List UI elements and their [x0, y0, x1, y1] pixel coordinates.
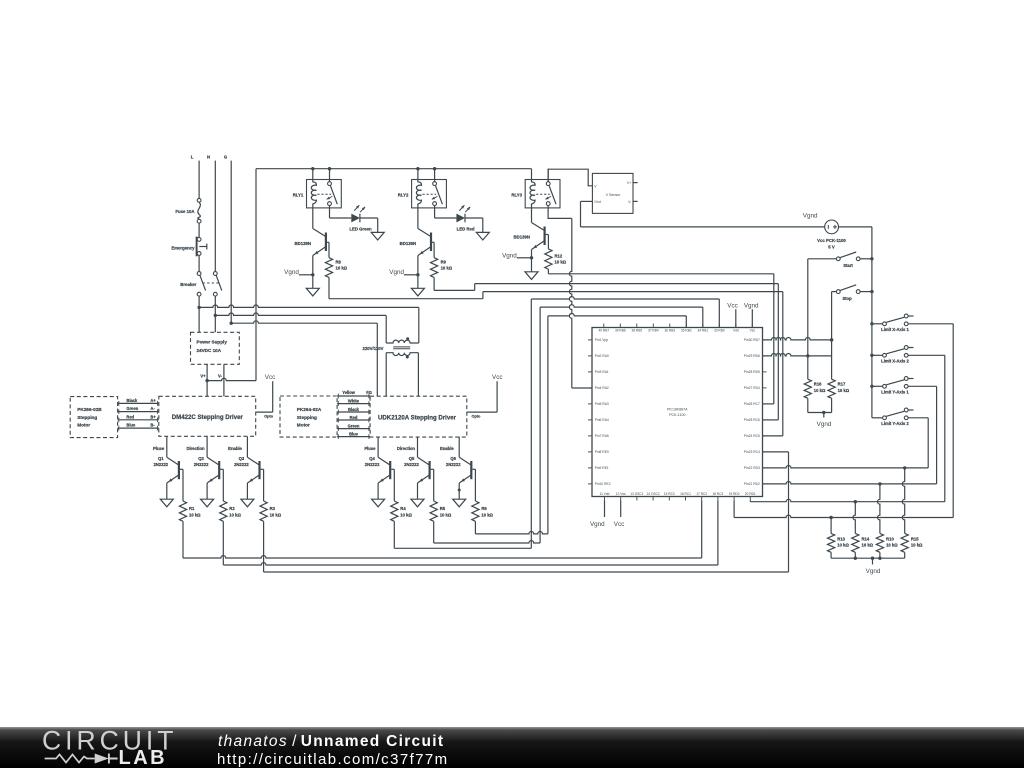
wire R3 to RC4 [264, 452, 789, 572]
svg-text:Start: Start [843, 263, 853, 268]
wire R10 column [878, 484, 880, 534]
svg-text:Yellow: Yellow [342, 390, 356, 395]
label Opto1 [264, 415, 274, 419]
svg-text:Pluse: Pluse [364, 446, 376, 451]
relay RLY3 [511, 169, 560, 208]
svg-text:R2: R2 [229, 506, 235, 511]
svg-text:40 RB7: 40 RB7 [598, 329, 609, 333]
svg-text:Q6: Q6 [450, 456, 456, 461]
junction rail X1 [870, 322, 873, 325]
label Vcc above chip [727, 302, 738, 309]
wire Vss top [751, 309, 753, 327]
svg-text:R15: R15 [911, 536, 919, 541]
transistor Q7 BD139N [295, 208, 326, 296]
CircuitLab logo resistor zigzag [45, 755, 95, 763]
wire RD3 line [763, 465, 929, 469]
resistor R5 [430, 501, 452, 521]
label Vgnd source [803, 213, 818, 220]
wire RD6 to Start node [763, 353, 832, 355]
wire R1 to RC2 [183, 501, 702, 559]
svg-text:LED Green: LED Green [349, 226, 372, 231]
svg-text:Pin4 RA2: Pin4 RA2 [595, 386, 609, 390]
svg-text:Q1: Q1 [158, 456, 164, 461]
svg-text:B-: B- [150, 423, 155, 428]
stepping driver U4 UDK2120A [370, 396, 467, 437]
svg-text:Green: Green [126, 406, 138, 411]
resistor R9 [431, 242, 453, 277]
wire R13-R15 bottom bus [831, 552, 905, 564]
svg-text:33 RB0: 33 RB0 [714, 329, 725, 333]
svg-text:RLY3: RLY3 [511, 193, 522, 198]
svg-text:PIC16F887A: PIC16F887A [667, 408, 688, 412]
svg-text:R8: R8 [336, 259, 342, 264]
transistor Q1 2N2222 [153, 437, 183, 507]
footer title thanatos / Unnamed Circuit [218, 733, 444, 750]
svg-text:18 RC3: 18 RC3 [712, 492, 723, 496]
svg-text:2N2222: 2N2222 [404, 462, 419, 467]
wire motor2 Yellow FG [337, 390, 372, 399]
label V- [218, 374, 223, 379]
svg-text:Limit X-Axis 1: Limit X-Axis 1 [881, 327, 909, 332]
svg-text:Pin5 RA3: Pin5 RA3 [595, 402, 609, 406]
svg-text:12 Vss: 12 Vss [616, 492, 626, 496]
svg-text:LED Red: LED Red [457, 226, 475, 231]
wire R9 to RC6 line [434, 277, 778, 420]
svg-text:http://circuitlab.com/c37f77m: http://circuitlab.com/c37f77m [217, 751, 449, 768]
transistor Q3 2N2222 [228, 437, 263, 507]
svg-text:Fuse 10A: Fuse 10A [175, 209, 194, 214]
wire Vgnd RLY3 [517, 256, 533, 259]
svg-text:2N2222: 2N2222 [153, 462, 168, 467]
svg-text:Black: Black [126, 398, 138, 403]
svg-text:thanatos / Unnamed Circuit: thanatos / Unnamed Circuit [218, 733, 444, 750]
svg-text:Red: Red [350, 415, 358, 420]
svg-text:PK264-02A: PK264-02A [297, 407, 322, 412]
CircuitLab logo diode [95, 754, 118, 764]
svg-text:Pin30 RD7: Pin30 RD7 [744, 338, 760, 342]
svg-text:36 RB3: 36 RB3 [664, 329, 675, 333]
svg-text:R12: R12 [555, 253, 563, 258]
svg-text:Pin22 RD3: Pin22 RD3 [744, 466, 760, 470]
svg-text:V-: V- [628, 200, 631, 204]
resistor R6 [472, 501, 494, 521]
pushbutton Emergency [171, 237, 206, 257]
transistor Q8 BD139N [400, 208, 431, 296]
svg-text:17 RC2: 17 RC2 [696, 492, 707, 496]
label Vgnd limit resistors [866, 568, 881, 575]
label Vgnd RLY2 [389, 269, 404, 276]
resistor R17 [828, 379, 850, 398]
svg-text:White: White [348, 399, 360, 404]
svg-text:Pin8 RE0: Pin8 RE0 [595, 450, 609, 454]
svg-text:38 RB5: 38 RB5 [631, 329, 642, 333]
svg-text:10 kΩ: 10 kΩ [441, 266, 453, 271]
svg-text:10 kΩ: 10 kΩ [838, 388, 850, 393]
wire source to common rail [839, 227, 872, 418]
svg-text:Limit Y-Axis 2: Limit Y-Axis 2 [881, 421, 909, 426]
transistor Q4 2N2222 [364, 437, 394, 507]
svg-text:Opto: Opto [264, 415, 274, 419]
svg-text:Vgnd: Vgnd [284, 269, 299, 276]
wire R4 to RB0 [394, 297, 719, 549]
wire sensor gnd to source [581, 201, 825, 227]
svg-text:V+: V+ [200, 374, 206, 379]
svg-text:LAB: LAB [119, 747, 168, 768]
wire R14 column [853, 502, 855, 534]
wire R13 column [830, 518, 832, 534]
resistor R2 [220, 501, 242, 521]
svg-text:PK266-02B: PK266-02B [77, 407, 102, 412]
svg-text:Limit X-Axis 2: Limit X-Axis 2 [881, 359, 909, 364]
wire RLY3 switch to PIC RA2 [548, 206, 592, 388]
svg-text:Vcc PCK-1100: Vcc PCK-1100 [817, 238, 846, 243]
wire N to transformer [215, 313, 386, 343]
svg-text:Pin9 RE1: Pin9 RE1 [595, 466, 609, 470]
svg-text:24VDC 10A: 24VDC 10A [197, 348, 222, 353]
svg-text:13 OSC1: 13 OSC1 [630, 492, 643, 496]
svg-text:Q2: Q2 [198, 456, 204, 461]
wire motor2 Green [337, 424, 370, 431]
label Opto2 [472, 415, 482, 419]
svg-text:A+: A+ [150, 398, 156, 403]
wire motor2 White [337, 399, 370, 406]
svg-text:2N2222: 2N2222 [365, 462, 380, 467]
wire RD1 line [750, 499, 945, 503]
wire R5 to RB1 [434, 305, 703, 543]
resistor R14 [852, 533, 874, 552]
fuse F1 Fuse 10A [175, 198, 201, 223]
svg-text:10 kΩ: 10 kΩ [189, 512, 201, 517]
footer url [217, 751, 449, 768]
svg-text:Pin7 RA5: Pin7 RA5 [595, 434, 609, 438]
wire V+ down [206, 364, 208, 396]
V sensor U2 [592, 173, 637, 213]
svg-text:2N2222: 2N2222 [194, 462, 209, 467]
LED D1 LED Green [330, 205, 385, 240]
svg-text:B+: B+ [150, 414, 156, 419]
svg-text:BD139N: BD139N [514, 235, 530, 240]
svg-text:V Sensor: V Sensor [606, 193, 622, 197]
svg-text:Direction: Direction [186, 446, 205, 451]
svg-text:G: G [224, 154, 228, 159]
stepping motor M2 PK264-02A [280, 396, 337, 437]
svg-text:Pin3 RA1: Pin3 RA1 [595, 370, 609, 374]
svg-text:11 Vdd: 11 Vdd [600, 492, 610, 496]
svg-text:BD139N: BD139N [295, 241, 311, 246]
svg-text:10 kΩ: 10 kΩ [837, 543, 849, 548]
svg-text:Direction: Direction [397, 446, 416, 451]
svg-text:Stop: Stop [842, 296, 852, 301]
junction bus RLY2 coil [416, 167, 419, 170]
svg-text:Pin27 RD4: Pin27 RD4 [744, 386, 760, 390]
resistor R13 [828, 533, 850, 552]
label Vgnd RLY1 [284, 269, 299, 276]
svg-text:Black: Black [348, 407, 360, 412]
resistor R15 [901, 533, 923, 552]
junction rail start [870, 257, 873, 260]
svg-text:N: N [207, 154, 210, 159]
wire Vgnd RLY2 [404, 273, 420, 276]
svg-text:Vgnd: Vgnd [502, 252, 517, 259]
LED D2 LED Red [435, 205, 490, 240]
svg-text:Limit Y-Axis 1: Limit Y-Axis 1 [881, 390, 909, 395]
svg-text:Vss: Vss [750, 329, 756, 333]
transformer T1 220V/110V [362, 337, 418, 358]
svg-text:Vdd: Vdd [733, 329, 739, 333]
svg-text:Vgnd: Vgnd [817, 421, 832, 428]
svg-text:FG: FG [366, 390, 372, 395]
svg-text:Pin25 RC6: Pin25 RC6 [744, 418, 760, 422]
stepping motor M1 PK266-02B [70, 397, 117, 438]
svg-text:10 kΩ: 10 kΩ [400, 512, 412, 517]
switch Start [808, 252, 872, 268]
wire R6 to RB2 [475, 314, 686, 534]
wire motor2 Black [337, 407, 370, 414]
wire relay supply bus [256, 168, 532, 170]
svg-text:Motor: Motor [77, 423, 90, 428]
wire Y1 out [908, 386, 937, 484]
wire 11 Vdd down [604, 501, 606, 518]
svg-text:R16: R16 [814, 382, 822, 387]
svg-text:Pluse: Pluse [153, 446, 165, 451]
wire motor1 B- Blue [118, 423, 159, 431]
junction V+ [205, 379, 208, 382]
label V+ [200, 374, 206, 379]
node N label [207, 154, 210, 159]
resistor R16 [804, 379, 826, 398]
svg-text:Pin1 Vpp: Pin1 Vpp [595, 338, 609, 342]
wire N top [214, 161, 216, 272]
svg-text:V+: V+ [627, 181, 631, 185]
label Vcc DM422C [265, 374, 276, 381]
svg-text:BD139N: BD139N [400, 241, 416, 246]
node L label [191, 154, 194, 159]
svg-text:UDK2120A Stepping Driver: UDK2120A Stepping Driver [378, 415, 457, 422]
switch Limit Y-Axis 1 [872, 377, 914, 395]
svg-text:R14: R14 [862, 536, 870, 541]
svg-text:R6: R6 [481, 506, 487, 511]
svg-text:Gnd: Gnd [594, 200, 601, 204]
switch Limit X-Axis 2 [872, 346, 914, 364]
label Vgnd below chip [590, 521, 605, 528]
junction bus RLY2 switch [433, 167, 436, 170]
svg-text:Pin23 RC4: Pin23 RC4 [744, 450, 760, 454]
wire R12 to RC7 line [548, 269, 773, 404]
wire Vdd top [735, 309, 737, 327]
svg-text:10 kΩ: 10 kΩ [481, 512, 493, 517]
svg-text:Pin21 RD2: Pin21 RD2 [744, 482, 760, 486]
svg-text:RLY2: RLY2 [398, 193, 409, 198]
svg-text:Q5: Q5 [409, 456, 415, 461]
wire motor2 Red [337, 415, 370, 422]
svg-text:10 kΩ: 10 kΩ [886, 543, 898, 548]
svg-text:DM422C Stepping Driver: DM422C Stepping Driver [172, 414, 244, 421]
wire RLY3 switch to sensor [548, 169, 592, 186]
svg-text:Red: Red [126, 414, 134, 419]
svg-text:Green: Green [348, 424, 360, 429]
transistor Q5 2N2222 [397, 437, 434, 507]
transistor Q9 BD139N [514, 208, 545, 279]
transistor Q2 2N2222 [186, 437, 223, 507]
svg-text:Enable: Enable [440, 446, 454, 451]
svg-text:37 RB4: 37 RB4 [648, 329, 659, 333]
svg-text:Pin2 RA0: Pin2 RA0 [595, 354, 609, 358]
svg-text:20 RD1: 20 RD1 [745, 492, 756, 496]
svg-text:14 OSC2: 14 OSC2 [647, 492, 660, 496]
switch Stop [832, 285, 872, 301]
wire RD0 line [734, 501, 953, 520]
wire L fuse-emergency [198, 223, 200, 237]
junction rail stop [870, 290, 873, 293]
wire L emergency-breaker [198, 256, 200, 272]
junction N [214, 314, 217, 317]
svg-text:Pin26 RC7: Pin26 RC7 [744, 402, 760, 406]
CircuitLab logo LAB [119, 747, 168, 768]
junction bus RLY1 coil [311, 167, 314, 170]
svg-text:16 RC1: 16 RC1 [680, 492, 691, 496]
svg-text:2N2222: 2N2222 [234, 462, 249, 467]
svg-text:L: L [191, 154, 194, 159]
power supply PS1 24VDC [191, 332, 240, 364]
svg-text:R5: R5 [440, 506, 446, 511]
svg-text:Pin28 RD5: Pin28 RD5 [744, 370, 760, 374]
svg-text:RLY1: RLY1 [293, 193, 304, 198]
wire G to FG [231, 321, 377, 396]
svg-text:Vgnd: Vgnd [389, 269, 404, 276]
junction bus RLY1 switch [328, 167, 331, 170]
resistor R3 [260, 501, 282, 521]
wire R2 to RC3 [223, 501, 718, 566]
wire G vertical [230, 161, 232, 324]
IC U1 PIC16F887A [588, 324, 767, 501]
svg-text:39 RB6: 39 RB6 [615, 329, 626, 333]
switch Limit X-Axis 1 [872, 314, 914, 332]
wire V+ branch to relay bus [207, 169, 256, 381]
svg-text:Pin10 RE2: Pin10 RE2 [595, 482, 611, 486]
svg-text:Vcc: Vcc [492, 374, 503, 381]
svg-text:19 RD0: 19 RD0 [729, 492, 740, 496]
wire N breaker-supply [214, 296, 216, 332]
svg-text:R1: R1 [189, 506, 195, 511]
junction L [197, 306, 200, 309]
svg-text:Motor: Motor [297, 423, 310, 428]
wire Vcc to Opto1 [256, 381, 273, 412]
svg-text:Vgnd: Vgnd [866, 568, 881, 575]
wire motor1 B+ Red [118, 414, 159, 422]
svg-text:10 kΩ: 10 kΩ [555, 260, 567, 265]
wire L to transformer [199, 305, 419, 343]
wire R15 column [902, 468, 904, 534]
svg-text:10 kΩ: 10 kΩ [270, 512, 282, 517]
svg-text:V-: V- [218, 374, 223, 379]
relay RLY1 [293, 169, 342, 208]
wire X1 out [908, 324, 953, 518]
svg-text:Vcc: Vcc [727, 302, 738, 309]
svg-text:Power Supply: Power Supply [197, 340, 228, 345]
svg-text:R10: R10 [886, 536, 894, 541]
svg-text:5 V: 5 V [828, 244, 835, 249]
junction G [230, 322, 233, 325]
svg-text:Pin6 RA4: Pin6 RA4 [595, 418, 609, 422]
wire Start to R16 [806, 259, 809, 379]
svg-text:Opto: Opto [472, 415, 482, 419]
svg-text:Stepping: Stepping [297, 415, 317, 420]
svg-text:R3: R3 [270, 506, 276, 511]
label Vcc below chip [614, 521, 625, 528]
wire Vgnd RLY1 [299, 273, 315, 276]
switch Limit Y-Axis 2 [872, 408, 914, 426]
svg-text:2N2222: 2N2222 [446, 462, 461, 467]
transistor Q6 2N2222 [440, 437, 475, 507]
junction rail X2 [870, 354, 873, 357]
svg-text:A-: A- [150, 406, 155, 411]
wire Stop to R17 [830, 292, 833, 380]
stepping driver U3 DM422C [159, 396, 256, 436]
wire R16 R17 join [808, 398, 832, 417]
svg-text:R13: R13 [837, 536, 845, 541]
svg-text:R9: R9 [441, 259, 447, 264]
svg-text:R17: R17 [838, 382, 846, 387]
svg-text:Pin29 RD6: Pin29 RD6 [744, 354, 760, 358]
CircuitLab logo CIRCUIT [42, 726, 177, 756]
svg-text:10 kΩ: 10 kΩ [862, 543, 874, 548]
wire RD2 line [763, 481, 937, 485]
svg-text:Breaker: Breaker [180, 282, 196, 287]
svg-text:Stepping: Stepping [77, 415, 97, 420]
label Vgnd above chip [744, 302, 759, 309]
label Vgnd R16R17 [817, 421, 832, 428]
wire Vcc to Opto2 [467, 381, 497, 412]
node G label [224, 154, 228, 159]
svg-text:Enable: Enable [228, 446, 242, 451]
svg-text:Vgnd: Vgnd [590, 521, 605, 528]
switch Breaker [180, 272, 222, 297]
resistor R10 [876, 533, 898, 552]
wire Y2 out [908, 418, 928, 468]
svg-text:10 kΩ: 10 kΩ [911, 543, 923, 548]
wire transformer secondary right [417, 353, 419, 397]
svg-text:PCK-1100: PCK-1100 [669, 413, 685, 417]
svg-text:V: V [594, 185, 597, 189]
label Vgnd RLY3 [502, 252, 517, 259]
svg-text:15 RC0: 15 RC0 [664, 492, 675, 496]
resistor R8 [325, 242, 347, 277]
svg-text:10 kΩ: 10 kΩ [814, 388, 826, 393]
junction Q6 emitter [458, 489, 461, 492]
svg-text:Pin24 RC5: Pin24 RC5 [744, 434, 760, 438]
svg-text:35 RB2: 35 RB2 [681, 329, 692, 333]
voltage source V1 [817, 220, 846, 249]
resistor R1 [179, 501, 201, 521]
label Vcc UDK [492, 374, 503, 381]
wire 12 Vss down [620, 501, 622, 518]
svg-text:34 RB1: 34 RB1 [697, 329, 708, 333]
wire motor1 A- Green [118, 406, 159, 414]
wire motor2 Blue [337, 432, 370, 439]
wire L top [198, 161, 200, 199]
wire motor1 A+ Black [118, 398, 159, 406]
wire R8 to RC5 line [329, 277, 783, 436]
svg-text:10 kΩ: 10 kΩ [336, 266, 348, 271]
relay RLY2 [398, 169, 447, 208]
wire RD7 to Stop node [763, 337, 834, 341]
wire L breaker-supply [198, 296, 200, 332]
svg-text:10 kΩ: 10 kΩ [440, 512, 452, 517]
svg-text:Vcc: Vcc [265, 374, 276, 381]
svg-text:Vgnd: Vgnd [744, 302, 759, 309]
svg-text:10 kΩ: 10 kΩ [229, 512, 241, 517]
wire transformer secondary left [385, 353, 387, 397]
